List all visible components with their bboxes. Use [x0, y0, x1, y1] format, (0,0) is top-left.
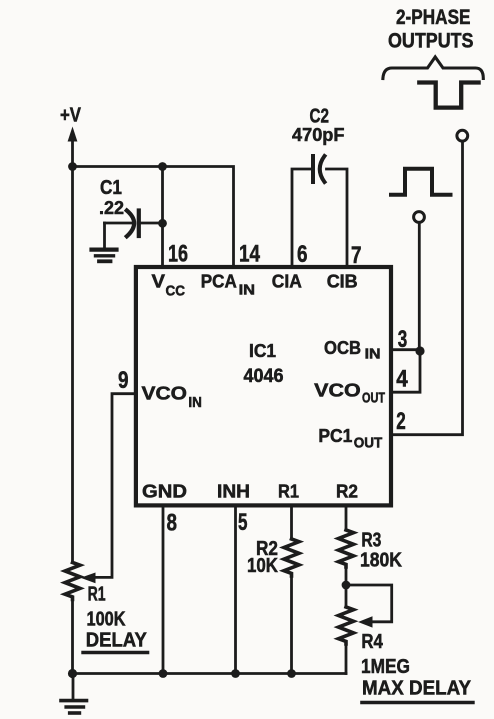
svg-text:2: 2: [396, 408, 406, 435]
junction bottom rail at R1: [68, 669, 77, 678]
svg-text:CIB: CIB: [327, 270, 358, 291]
upper output terminal: [457, 130, 468, 141]
potentiometer R4: [339, 585, 354, 674]
wire bottom rail: [73, 672, 347, 675]
capacitor C1: [105, 211, 163, 237]
op IC1 4046 box: [136, 267, 391, 505]
svg-text:OUT: OUT: [354, 436, 383, 452]
junction at +V rail left: [68, 162, 77, 171]
svg-text:IC1: IC1: [249, 340, 276, 361]
junction pins 3-4: [415, 346, 424, 355]
svg-text:MAX DELAY: MAX DELAY: [362, 677, 471, 700]
wire Vcc branch to pin 16: [161, 167, 164, 266]
svg-text:OUTPUTS: OUTPUTS: [388, 29, 474, 53]
waveform inverted pulse (upper): [419, 83, 478, 108]
svg-text:IN: IN: [188, 395, 202, 411]
wire left rail from +V junction down to R1: [71, 167, 74, 563]
svg-text:R1: R1: [278, 481, 299, 502]
resistor R3: [339, 505, 354, 585]
svg-text:IN: IN: [365, 347, 381, 363]
svg-text:GND: GND: [142, 481, 187, 502]
svg-text:IN: IN: [239, 283, 256, 299]
svg-text:9: 9: [118, 367, 129, 394]
svg-text:CC: CC: [166, 284, 186, 300]
label OCB IN: [324, 337, 381, 363]
junction R3/R4 wiper: [342, 581, 351, 590]
svg-text:4: 4: [396, 366, 408, 393]
svg-text:14: 14: [239, 241, 261, 268]
ground at bottom rail: [61, 674, 87, 714]
svg-text:R4: R4: [361, 630, 383, 653]
svg-text:OCB: OCB: [324, 337, 361, 358]
resistor R2: [284, 505, 299, 673]
svg-text:6: 6: [297, 241, 308, 268]
wiper arrow of R1: [81, 573, 96, 584]
svg-text:INH: INH: [217, 481, 250, 502]
label Vcc: [152, 271, 186, 300]
potentiometer R1: [65, 563, 80, 674]
svg-text:VCO: VCO: [142, 383, 188, 404]
svg-text:2-PHASE: 2-PHASE: [396, 5, 471, 29]
ground for C1: [92, 250, 117, 262]
svg-text:+V: +V: [60, 104, 81, 127]
svg-text:VCO: VCO: [314, 380, 361, 401]
svg-text:4046: 4046: [244, 365, 284, 387]
brace over outputs: [383, 57, 483, 79]
svg-text:470pF: 470pF: [292, 124, 345, 145]
junction bottom rail at pin 8: [159, 669, 168, 678]
junction bottom rail at R2: [287, 669, 296, 678]
svg-text:DELAY: DELAY: [86, 629, 147, 652]
junction at Vcc branch: [158, 162, 167, 171]
label PCA IN: [201, 270, 255, 298]
svg-text:10K: 10K: [247, 554, 278, 577]
svg-text:7: 7: [351, 242, 362, 269]
label VCO OUT: [314, 380, 385, 407]
wire top rail from +V to pin 14: [73, 167, 234, 266]
capacitor C2: [292, 156, 347, 265]
svg-text:OUT: OUT: [362, 391, 385, 407]
pin 9 stub and wire to R1 wiper: [94, 394, 136, 578]
wiper arrow of R4: [358, 616, 373, 627]
pin 8 wire to bottom rail: [162, 505, 165, 673]
svg-text:C1: C1: [100, 176, 122, 199]
svg-text:PC1: PC1: [318, 425, 352, 446]
svg-text:CIA: CIA: [272, 270, 302, 291]
svg-text:3: 3: [398, 326, 408, 353]
svg-text:R1: R1: [88, 583, 106, 606]
wire R4 wiper loop: [346, 585, 392, 622]
svg-text:100K: 100K: [87, 607, 126, 630]
svg-text:R2: R2: [336, 481, 358, 502]
svg-text:5: 5: [238, 509, 248, 536]
svg-text:PCA: PCA: [201, 270, 237, 291]
junction bottom rail at pin 5: [231, 669, 240, 678]
lower output terminal: [414, 212, 425, 223]
svg-text:8: 8: [167, 510, 178, 537]
label PC1 OUT: [318, 425, 382, 452]
waveform positive pulse (lower): [391, 169, 451, 195]
svg-text:.22: .22: [99, 197, 124, 218]
wire C1 to ground: [103, 223, 106, 248]
svg-text:16: 16: [168, 241, 188, 268]
pin 4 stub and riser to pin3 junction: [391, 350, 420, 393]
wire from junction up to lower output terminal: [418, 223, 421, 350]
svg-text:V: V: [152, 271, 166, 292]
node +V supply arrow: [68, 127, 78, 168]
svg-text:180K: 180K: [360, 548, 402, 571]
junction C1 to Vcc line: [158, 219, 167, 228]
pin 2 stub and wire to upper output terminal: [391, 142, 463, 435]
label VCO IN (left): [142, 383, 202, 411]
svg-text:1MEG: 1MEG: [361, 655, 410, 678]
pin 3 stub: [391, 348, 420, 351]
pin 5 wire to bottom rail: [234, 505, 237, 673]
